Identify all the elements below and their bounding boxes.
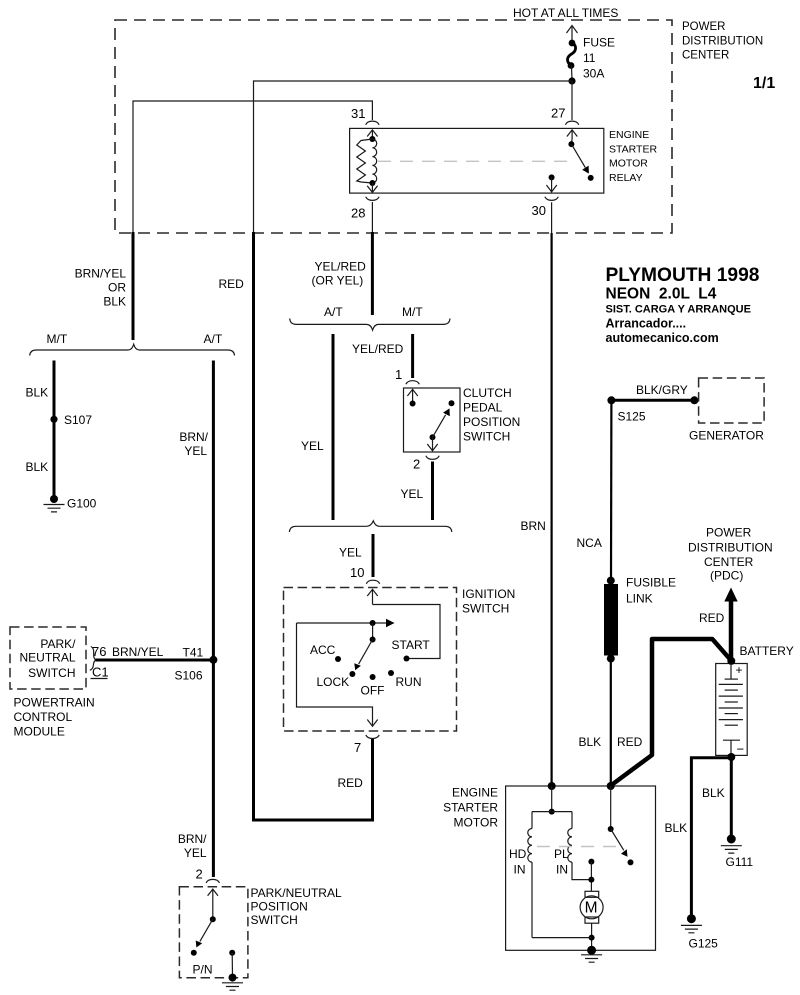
svg-text:CENTER: CENTER — [682, 50, 729, 62]
clutch switch upper contact — [449, 400, 455, 406]
label PARK/NEUTRAL POSITION SWITCH — [251, 886, 342, 927]
wire: RED drop from PDC — [254, 232, 373, 820]
svg-text:DISTRIBUTION: DISTRIBUTION — [688, 541, 773, 555]
svg-text:MOTOR: MOTOR — [454, 816, 499, 830]
wire: M/T YEL/RED to clutch switch pin 1 — [411, 334, 414, 378]
powertrain control module dashed box — [10, 627, 86, 689]
label POWER DISTRIBUTION CENTER (top right) — [682, 21, 763, 62]
svg-text:SWITCH: SWITCH — [463, 430, 510, 444]
wire: ignition feed path to START contact — [373, 605, 441, 659]
relay armature linkage (dashed) — [378, 160, 574, 162]
connector cup pin 31 — [366, 121, 379, 125]
connector cup pin 30 — [545, 197, 558, 201]
label PARK/ NEUTRAL SWITCH (inside PCM) — [19, 637, 76, 680]
P/N switch blade — [196, 919, 213, 947]
svg-text:FUSIBLE: FUSIBLE — [626, 576, 676, 590]
clutch switch pin 2 arrow — [427, 437, 437, 451]
ground at P/N switch — [222, 974, 243, 991]
battery — [716, 657, 748, 757]
svg-text:POWERTRAIN: POWERTRAIN — [14, 696, 95, 710]
svg-text:ENGINE: ENGINE — [609, 129, 649, 141]
node at generator — [690, 396, 698, 404]
relay pin 30 contact and exit arrow — [546, 174, 556, 192]
svg-text:SIST. CARGA Y ARRANQUE: SIST. CARGA Y ARRANQUE — [606, 304, 751, 316]
svg-text:M: M — [585, 900, 598, 917]
svg-text:PL: PL — [554, 847, 569, 861]
engine starter motor box — [506, 786, 656, 950]
relay switch pin 27 arrow — [567, 130, 577, 139]
relay coil resistor — [357, 139, 373, 183]
svg-text:S106: S106 — [175, 669, 203, 683]
clutch switch blade — [430, 408, 450, 440]
svg-text:IGNITION: IGNITION — [462, 587, 515, 601]
label BRN/YEL OR BLK — [75, 267, 127, 309]
ground G100 — [44, 495, 97, 512]
svg-text:BRN/YEL: BRN/YEL — [75, 267, 127, 281]
wire: starter coils feed — [532, 786, 572, 815]
ignition pin 10 entry arrow — [367, 589, 377, 604]
svg-text:START: START — [392, 638, 431, 652]
node S106 — [175, 656, 218, 683]
svg-text:C1: C1 — [92, 665, 109, 680]
svg-text:−: − — [737, 742, 745, 757]
svg-text:Arrancador....: Arrancador.... — [606, 317, 687, 331]
contact RUN — [388, 670, 422, 689]
relay coil winding — [372, 139, 376, 183]
node: battery cable entry on starter box — [607, 782, 615, 790]
connector cup pin 1 — [406, 381, 419, 385]
label POWER DISTRIBUTION CENTER (PDC) — [688, 526, 773, 583]
svg-text:BRN/: BRN/ — [178, 832, 207, 846]
wire: BLK/GRY to generator — [611, 399, 694, 402]
svg-text:ACC: ACC — [310, 643, 336, 657]
wire: YEL to ignition switch pin 10 — [372, 534, 375, 577]
relay coil upper node — [369, 136, 375, 142]
label BRN/YEL (A/T drop) — [179, 430, 208, 458]
park/neutral position switch dashed box — [179, 887, 248, 978]
svg-text:RED: RED — [699, 611, 725, 625]
label POWERTRAIN CONTROL MODULE — [14, 696, 95, 739]
svg-text:SWITCH: SWITCH — [28, 666, 75, 680]
svg-text:RUN: RUN — [396, 675, 422, 689]
svg-text:POWER: POWER — [706, 526, 752, 540]
svg-text:NCA: NCA — [577, 536, 602, 550]
svg-text:BLK: BLK — [26, 460, 49, 474]
wire: horizontal feed from fuse junction to left drop (RED circuit) — [254, 81, 573, 233]
svg-text:A/T: A/T — [204, 332, 223, 346]
label HD IN — [509, 847, 527, 877]
svg-text:HOT AT ALL TIMES: HOT AT ALL TIMES — [513, 6, 618, 20]
label IGNITION SWITCH — [462, 587, 515, 616]
svg-text:2: 2 — [413, 457, 420, 472]
wire: relay pin 28 down inside PDC — [371, 202, 373, 232]
svg-text:GENERATOR: GENERATOR — [689, 429, 764, 443]
svg-text:RED: RED — [617, 735, 643, 749]
svg-text:OR: OR — [108, 281, 126, 295]
label ENGINE STARTER MOTOR — [443, 786, 498, 830]
wire: battery negative BLK to G125 — [691, 758, 731, 919]
label CLUTCH PEDAL POSITION SWITCH — [463, 386, 520, 444]
svg-text:ENGINE: ENGINE — [452, 786, 498, 800]
wire: BRN/YEL drop from PDC — [132, 232, 135, 340]
svg-text:BRN/: BRN/ — [179, 430, 208, 444]
svg-text:OFF: OFF — [361, 684, 385, 698]
ignition blade to LOCK — [354, 640, 372, 671]
splice brace A/T M/T (middle) — [290, 319, 450, 331]
contact P/N — [191, 950, 213, 977]
svg-text:G125: G125 — [689, 937, 719, 951]
svg-text:BLK: BLK — [579, 735, 602, 749]
svg-text:POSITION: POSITION — [251, 900, 308, 914]
svg-text:PARK/NEUTRAL: PARK/NEUTRAL — [251, 886, 342, 900]
svg-text:automecanico.com: automecanico.com — [606, 331, 719, 345]
merge brace to ignition feed — [289, 521, 451, 532]
node S107 — [50, 413, 92, 427]
svg-text:IN: IN — [514, 863, 526, 877]
ignition pin 7 exit arrow — [367, 720, 377, 727]
svg-text:BRN/YEL: BRN/YEL — [112, 645, 164, 659]
battery negative node — [727, 753, 735, 761]
label FUSIBLE LINK — [626, 576, 676, 606]
svg-text:BRN: BRN — [521, 519, 546, 533]
splice brace M/T A/T (left) — [30, 344, 235, 355]
wire: M/T BLK to ground — [53, 361, 56, 499]
svg-text:G111: G111 — [726, 855, 754, 869]
wire: BRN/YEL S106 down to park/neutral position switch — [212, 660, 215, 877]
svg-text:RED: RED — [338, 776, 364, 790]
svg-text:STARTER: STARTER — [443, 801, 498, 815]
battery cable RED from starter to battery — [611, 639, 731, 786]
svg-text:30A: 30A — [583, 67, 604, 81]
wire: relay pin 28 drop YEL/RED — [371, 232, 374, 315]
label ENGINE STARTER MOTOR RELAY — [609, 129, 657, 184]
starter solenoid linkage (dashed) — [537, 846, 617, 848]
svg-text:YEL: YEL — [401, 487, 424, 501]
svg-text:LINK: LINK — [626, 592, 653, 606]
svg-text:DISTRIBUTION: DISTRIBUTION — [682, 36, 763, 48]
svg-text:P/N: P/N — [193, 963, 213, 977]
svg-text:T41: T41 — [183, 646, 204, 660]
node: junction of hot feed wire at fuse output — [568, 77, 575, 84]
arrow RED to PDC — [724, 588, 737, 661]
svg-text:31: 31 — [351, 106, 365, 121]
wire: ignition output path to pin 7 — [297, 623, 373, 725]
svg-text:NEUTRAL: NEUTRAL — [19, 651, 75, 665]
svg-text:PARK/: PARK/ — [40, 637, 76, 651]
svg-text:(PDC): (PDC) — [710, 569, 743, 583]
contact ACC — [310, 643, 341, 662]
generator dashed box — [699, 378, 765, 423]
svg-text:28: 28 — [351, 206, 365, 221]
svg-text:MODULE: MODULE — [14, 725, 65, 739]
svg-text:NEON 2.0L L4: NEON 2.0L L4 — [606, 286, 717, 303]
power distribution center dashed box — [115, 20, 672, 233]
svg-text:BLK/GRY: BLK/GRY — [636, 383, 688, 397]
relay coil pin 28 exit arrow — [367, 183, 377, 192]
wire: A/T YEL branch down — [332, 334, 335, 520]
svg-text:YEL/RED: YEL/RED — [352, 342, 404, 356]
P/N ground contact — [229, 950, 235, 978]
ignition rotor pivot — [370, 623, 376, 643]
relay switch common contact — [568, 138, 574, 147]
svg-text:POWER: POWER — [682, 21, 725, 33]
P/N switch entry arrow — [208, 889, 218, 922]
svg-text:1: 1 — [395, 367, 402, 382]
svg-text:A/T: A/T — [324, 305, 343, 319]
contact OFF — [361, 674, 385, 698]
PCM connector symbol C1 — [90, 647, 96, 671]
svg-text:RED: RED — [219, 277, 245, 291]
svg-text:M/T: M/T — [47, 332, 68, 346]
svg-text:SWITCH: SWITCH — [251, 913, 298, 927]
relay switch output contact — [588, 175, 594, 181]
svg-text:1/1: 1/1 — [753, 75, 775, 92]
svg-text:YEL: YEL — [301, 439, 324, 453]
starter motor feed nodes — [588, 859, 594, 891]
svg-text:CENTER: CENTER — [704, 555, 754, 569]
clutch pedal position switch box — [404, 388, 461, 452]
svg-text:BLK: BLK — [26, 386, 49, 400]
starter PL IN winding — [568, 812, 592, 880]
wire: fuse output down to relay pin 27 — [571, 81, 573, 120]
svg-text:PEDAL: PEDAL — [463, 401, 503, 415]
contact START — [392, 638, 431, 662]
svg-text:M/T: M/T — [402, 305, 423, 319]
connector cup pin 7 (below ignition box) — [366, 735, 379, 739]
ground G125 — [681, 914, 718, 950]
relay box — [350, 128, 604, 193]
fusible link — [604, 577, 618, 663]
svg-text:FUSE: FUSE — [583, 36, 615, 50]
label PL IN — [554, 847, 569, 877]
label YEL/RED (OR YEL) — [312, 260, 367, 288]
svg-text:S107: S107 — [64, 413, 92, 427]
svg-text:YEL: YEL — [184, 846, 207, 860]
svg-text:YEL: YEL — [184, 444, 207, 458]
label C1 — [91, 665, 109, 680]
contact LOCK — [317, 671, 356, 689]
wire: A/T BRN/YEL down to S106 — [212, 361, 215, 660]
svg-text:S125: S125 — [618, 410, 646, 424]
clutch switch pin 1 arrow and contact — [407, 389, 417, 406]
svg-text:76: 76 — [92, 644, 106, 659]
svg-text:PLYMOUTH 1998: PLYMOUTH 1998 — [606, 265, 760, 286]
starter HD IN winding — [528, 812, 532, 938]
svg-text:G100: G100 — [67, 497, 97, 511]
svg-text:27: 27 — [551, 106, 565, 121]
svg-text:10: 10 — [350, 565, 364, 580]
connector cup pin 2 (clutch) — [426, 456, 439, 460]
wire: BRN/YEL from PCM to S106 — [96, 659, 214, 662]
svg-text:11: 11 — [583, 51, 596, 65]
motor M — [580, 891, 603, 923]
relay switch blade — [571, 144, 589, 174]
label FUSE 11 30A — [583, 36, 615, 81]
svg-text:SWITCH: SWITCH — [462, 602, 509, 616]
ignition rotor line with arrow — [297, 619, 395, 627]
fuse 11 30A — [568, 40, 576, 81]
wire: battery negative BLK to G111 — [730, 757, 733, 839]
wire: BRN from relay pin 30 to starter — [550, 233, 552, 786]
node S125 — [607, 396, 645, 423]
wire: NCA from S125 to fusible link — [610, 400, 613, 580]
svg-text:BLK: BLK — [702, 786, 725, 800]
svg-text:CLUTCH: CLUTCH — [463, 386, 512, 400]
wire: clutch pin 2 YEL down — [431, 462, 434, 521]
ignition switch dashed box — [284, 588, 457, 732]
svg-text:7: 7 — [354, 740, 361, 755]
ground G111 — [721, 835, 754, 870]
connector cup pin 28 — [366, 197, 379, 201]
ground at starter motor — [581, 946, 602, 962]
wire: BLK from fusible link to starter — [610, 659, 612, 786]
connector cup pin 10 — [366, 580, 379, 584]
svg-text:YEL: YEL — [339, 546, 362, 560]
relay coil pin 31 entry arrow — [367, 130, 377, 139]
starter solenoid switch — [608, 786, 634, 865]
wire: relay pin 30 down inside PDC — [551, 202, 553, 233]
svg-text:2: 2 — [196, 867, 203, 882]
node: BRN entry on starter box — [548, 782, 556, 790]
svg-text:STARTER: STARTER — [609, 143, 657, 155]
svg-text:BATTERY: BATTERY — [740, 644, 794, 658]
svg-text:MOTOR: MOTOR — [609, 158, 648, 170]
svg-text:RELAY: RELAY — [609, 172, 643, 184]
arrow up from fuse to hot feed — [567, 26, 578, 44]
svg-text:YEL/RED: YEL/RED — [315, 260, 367, 274]
relay coil lower node — [369, 180, 375, 186]
connector cup pin 27 — [565, 121, 578, 125]
svg-text:HD: HD — [509, 847, 527, 861]
svg-text:BLK: BLK — [665, 821, 688, 835]
wire: motor to ground — [532, 923, 595, 950]
svg-text:LOCK: LOCK — [317, 675, 350, 689]
svg-text:30: 30 — [532, 203, 546, 218]
svg-text:+: + — [736, 663, 743, 677]
label BRN/ YEL (to P/N switch) — [178, 832, 207, 860]
wire: horizontal feed to relay pin 31 — [133, 101, 372, 233]
connector cup pin 2 (P/N) — [206, 879, 219, 883]
svg-text:POSITION: POSITION — [463, 415, 520, 429]
svg-text:BLK: BLK — [103, 295, 126, 309]
svg-text:(OR YEL): (OR YEL) — [312, 274, 364, 288]
svg-text:IN: IN — [556, 863, 568, 877]
svg-text:CONTROL: CONTROL — [14, 710, 73, 724]
